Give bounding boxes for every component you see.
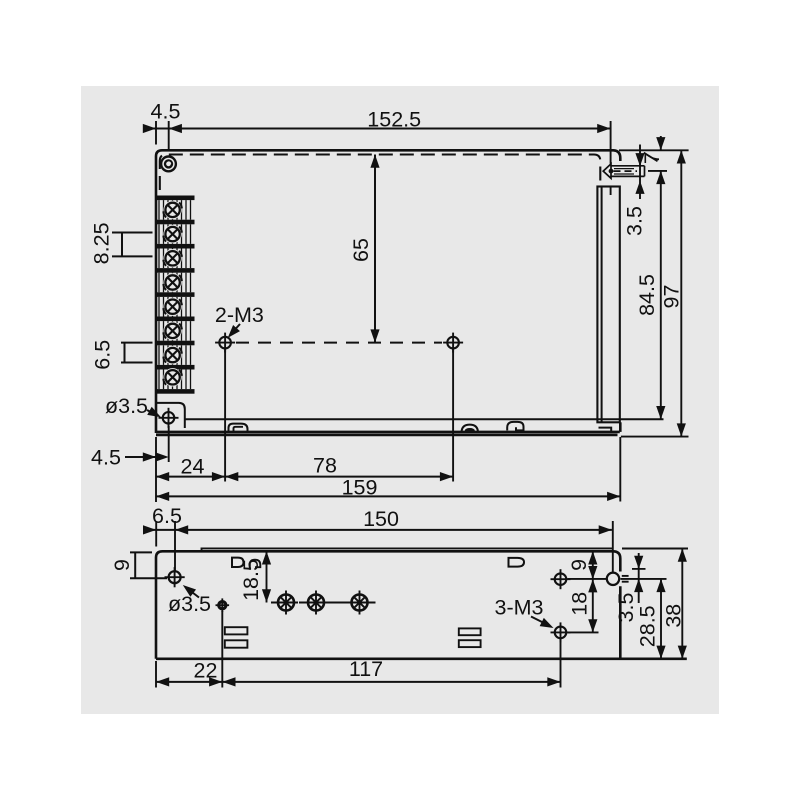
row of three circle-X holes	[274, 591, 298, 615]
small hook feature left	[250, 560, 260, 570]
louver 3 (hook) on bottom edge	[507, 422, 523, 431]
svg-text:22: 22	[194, 659, 218, 683]
top-left cover screw	[161, 157, 176, 172]
svg-text:6.5: 6.5	[152, 504, 182, 528]
svg-text:3-M3: 3-M3	[495, 595, 544, 619]
terminal block hatching	[159, 200, 191, 389]
bar bottom step	[599, 428, 612, 432]
left dimension 9 (view 2)	[130, 552, 167, 578]
dimension 84.5	[660, 171, 662, 419]
svg-text:159: 159	[342, 476, 378, 500]
svg-text:65: 65	[349, 238, 373, 262]
gray drawing panel	[81, 86, 719, 714]
dimension 65 vertical	[374, 155, 376, 343]
bottom edge view 2	[156, 657, 687, 660]
svg-text:4.5: 4.5	[151, 100, 181, 124]
svg-text:117: 117	[349, 657, 383, 681]
ext: right edge down	[619, 437, 621, 502]
dimension 38	[681, 549, 683, 659]
screw center reference lines	[568, 578, 607, 580]
bottom dimensions view 2 : 22 / 117	[156, 611, 561, 688]
dimension 6.5 / 150	[156, 521, 613, 572]
svg-text:3.5: 3.5	[614, 593, 638, 623]
vent slot pair right	[459, 628, 481, 647]
louver 1 on bottom edge	[229, 424, 248, 432]
lip reference extension right	[622, 548, 688, 550]
dimension 28.5	[660, 579, 662, 659]
2-M3 mounting holes	[215, 333, 235, 353]
svg-text:28.5: 28.5	[636, 605, 660, 647]
svg-text:9: 9	[567, 559, 591, 571]
dimension 18 (right, view 2)	[592, 579, 594, 632]
right M3 hole upper	[551, 569, 571, 589]
dimension line 4.5 / 152.5	[144, 128, 611, 130]
dimension line 159	[156, 495, 620, 497]
dashed inner cover line	[160, 155, 601, 191]
extension line right screw (top)	[610, 121, 612, 164]
svg-text:8.25: 8.25	[89, 222, 113, 264]
ext: ø3.5 hole down	[168, 426, 170, 462]
svg-text:3.5: 3.5	[623, 206, 647, 236]
right-side reference lines	[619, 150, 689, 436]
vent slot pair left	[225, 627, 248, 648]
left-side dimension 6.5	[121, 343, 153, 363]
D-slot feature right	[509, 558, 525, 567]
right M3 hole lower	[551, 622, 571, 642]
terminal block bars	[156, 196, 195, 394]
svg-text:97: 97	[659, 285, 683, 309]
svg-text:152.5: 152.5	[367, 108, 421, 132]
bottom lip edge	[156, 434, 618, 437]
body outline	[156, 150, 620, 433]
svg-text:18.5: 18.5	[239, 559, 263, 601]
cover lip line view 2	[202, 548, 613, 551]
D-slot feature left	[232, 558, 244, 567]
svg-text:84.5: 84.5	[635, 274, 659, 316]
svg-text:6.5: 6.5	[91, 340, 115, 370]
small hole anchor for 22/117	[216, 598, 230, 612]
ø3.5 mounting hole view 2 (top-left)	[165, 567, 185, 587]
svg-text:18: 18	[567, 592, 591, 616]
dimension 97	[680, 150, 682, 436]
svg-text:ø3.5: ø3.5	[105, 394, 148, 418]
dashed centerline between M3 holes	[236, 342, 442, 344]
extension line body left edge (top)	[155, 121, 157, 145]
bottom-left notch around mounting hole	[156, 403, 185, 428]
dimension 18.5	[266, 551, 268, 602]
svg-text:9: 9	[110, 559, 134, 571]
svg-text:2-M3: 2-M3	[215, 303, 264, 327]
dimension 7 (right top)	[660, 136, 662, 150]
ext: M3 hole 1 down	[224, 349, 226, 482]
svg-text:78: 78	[313, 454, 337, 478]
svg-text:24: 24	[181, 455, 205, 479]
body outline view 2	[156, 551, 620, 659]
top-right side screw with tab	[603, 164, 644, 178]
ext: left edge down	[155, 437, 157, 502]
svg-text:4.5: 4.5	[91, 446, 121, 470]
terminal screws	[163, 201, 182, 219]
dimension 9 (right, view 2)	[592, 551, 594, 579]
dimension 3.5 (right top)	[639, 145, 641, 200]
ext: M3 hole 2 down	[452, 349, 454, 482]
centerline segments of hole row	[271, 602, 376, 604]
louver 2 (dome) on bottom edge	[462, 425, 479, 432]
svg-text:150: 150	[363, 507, 399, 531]
extension line screw center (top)	[168, 121, 170, 150]
right side slot bar	[597, 187, 619, 423]
dimension line 24 / 78	[156, 476, 453, 478]
side screw view 2	[607, 573, 629, 585]
left-side dimension 8.25	[112, 233, 153, 257]
svg-text:38: 38	[661, 604, 685, 628]
bottom outer edge	[156, 431, 620, 434]
svg-text:ø3.5: ø3.5	[168, 592, 211, 616]
bottom dimensions of view 1	[156, 349, 620, 502]
bottom-left mounting hole ø3.5	[159, 408, 179, 428]
inner bottom edge (84.5 reference)	[185, 418, 664, 420]
dimension 3.5 (right, view 2)	[638, 553, 640, 603]
